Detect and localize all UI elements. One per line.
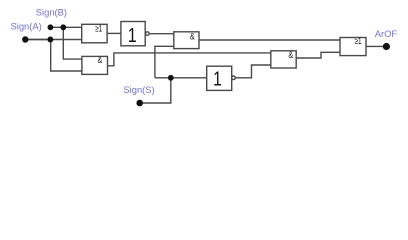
svg-text:≥1: ≥1 <box>95 23 102 34</box>
svg-text:Sign(A): Sign(A) <box>11 21 42 32</box>
svg-text:Sign(S): Sign(S) <box>123 84 154 95</box>
svg-text:&: & <box>98 54 103 65</box>
svg-text:&: & <box>288 49 293 60</box>
svg-text:Sign(B): Sign(B) <box>36 6 67 17</box>
svg-text:&: & <box>190 30 195 41</box>
svg-text:1: 1 <box>213 68 222 90</box>
svg-text:1: 1 <box>128 23 137 46</box>
svg-text:≥1: ≥1 <box>355 36 362 47</box>
svg-text:ArOF: ArOF <box>375 28 398 39</box>
